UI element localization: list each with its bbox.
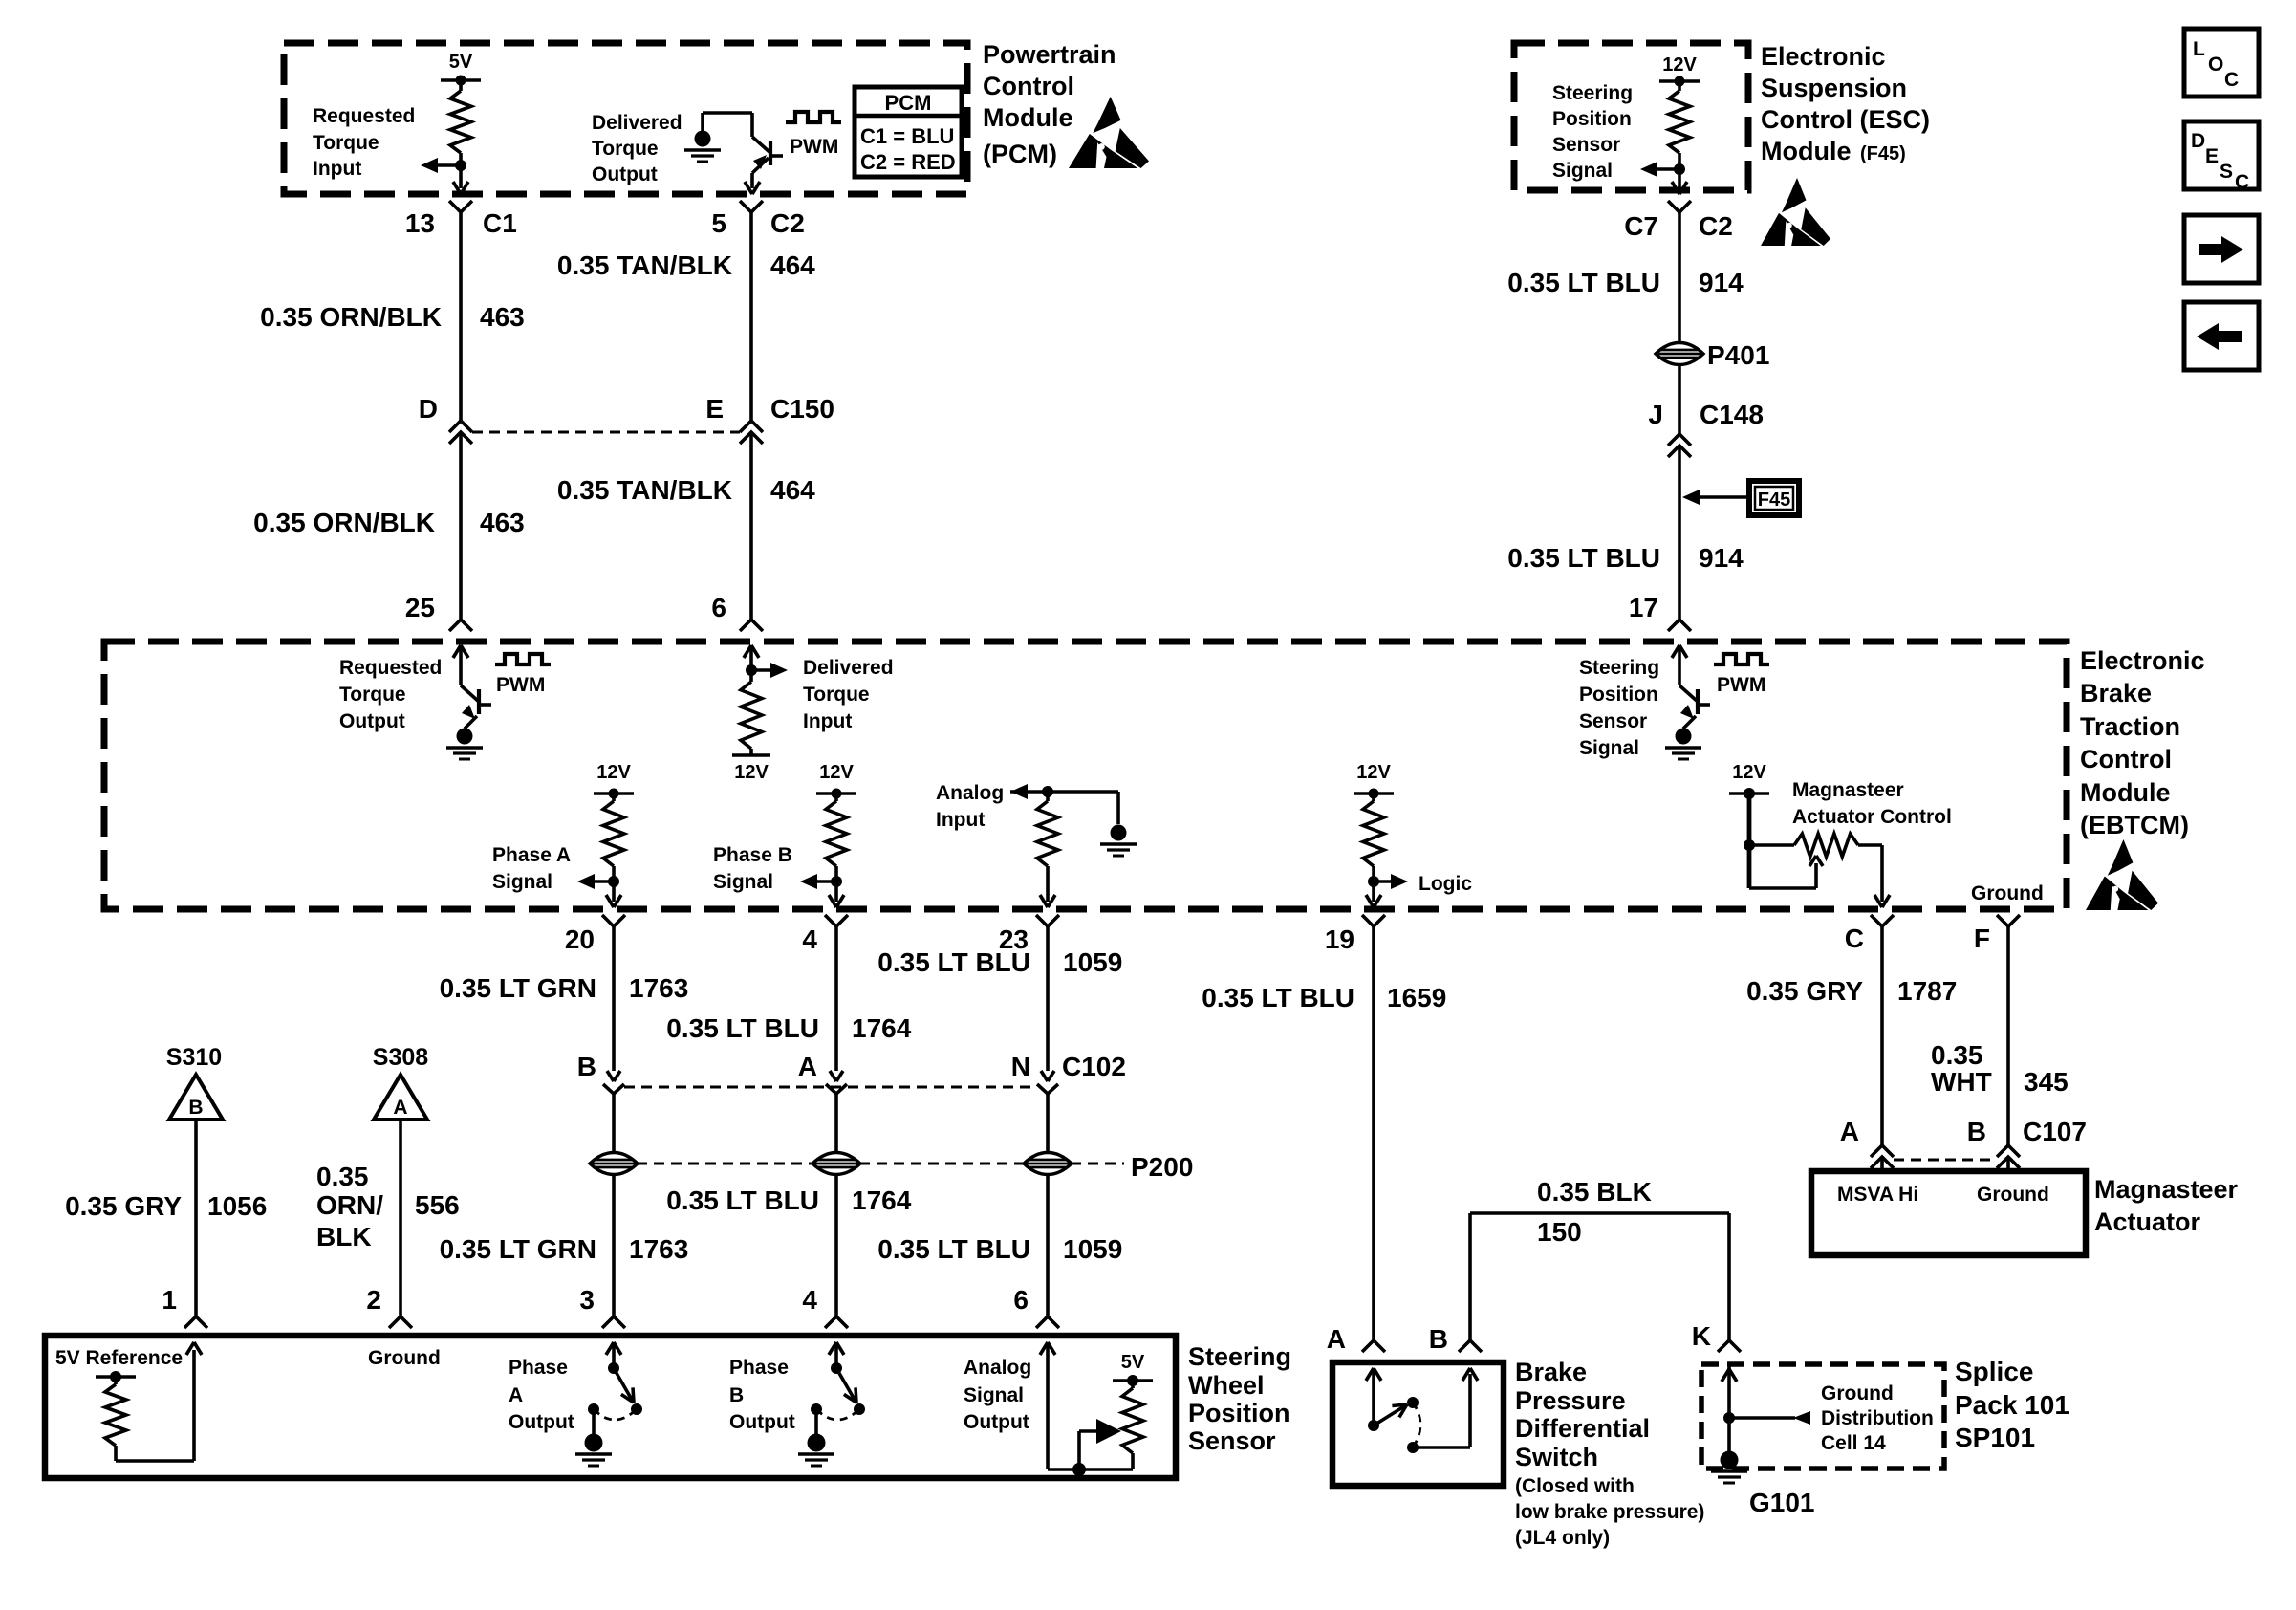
svg-text:C102: C102 — [1062, 1052, 1126, 1081]
svg-text:4: 4 — [802, 1285, 817, 1315]
svg-text:Control: Control — [983, 72, 1074, 100]
svg-text:0.35 LT BLU: 0.35 LT BLU — [666, 1013, 819, 1043]
svg-text:12V: 12V — [1662, 54, 1697, 76]
svg-text:C2: C2 — [1699, 211, 1733, 241]
svg-text:914: 914 — [1699, 268, 1744, 297]
svg-text:12V: 12V — [734, 762, 769, 783]
svg-text:Magnasteer: Magnasteer — [2094, 1175, 2239, 1204]
svg-text:Brake: Brake — [1515, 1358, 1587, 1386]
svg-text:PCM: PCM — [885, 91, 932, 115]
svg-text:Signal: Signal — [713, 871, 773, 893]
svg-text:PWM: PWM — [496, 674, 545, 696]
svg-text:Output: Output — [964, 1411, 1029, 1433]
svg-text:Torque: Torque — [339, 684, 406, 706]
svg-text:Sensor: Sensor — [1579, 710, 1647, 732]
svg-text:1: 1 — [162, 1285, 177, 1315]
svg-text:Steering: Steering — [1579, 657, 1659, 679]
svg-text:Switch: Switch — [1515, 1443, 1598, 1471]
svg-text:Torque: Torque — [313, 132, 379, 154]
svg-text:0.35 LT GRN: 0.35 LT GRN — [440, 1234, 596, 1264]
svg-text:Phase: Phase — [509, 1357, 568, 1379]
svg-text:Analog: Analog — [936, 782, 1004, 804]
svg-text:6: 6 — [1013, 1285, 1029, 1315]
svg-text:SP101: SP101 — [1955, 1423, 2035, 1452]
svg-text:Ground: Ground — [1977, 1184, 2049, 1206]
svg-text:Input: Input — [936, 809, 985, 831]
svg-text:1787: 1787 — [1897, 976, 1957, 1006]
svg-text:Logic: Logic — [1419, 873, 1472, 895]
svg-text:5V Reference: 5V Reference — [55, 1347, 183, 1369]
svg-text:Distribution: Distribution — [1821, 1407, 1934, 1429]
svg-text:C148: C148 — [1700, 400, 1764, 429]
svg-text:464: 464 — [770, 475, 815, 505]
svg-text:low brake pressure): low brake pressure) — [1515, 1501, 1704, 1523]
svg-text:0.35 ORN/BLK: 0.35 ORN/BLK — [253, 508, 435, 537]
svg-text:B: B — [1967, 1117, 1986, 1146]
svg-text:A: A — [798, 1052, 817, 1081]
svg-text:C: C — [1845, 924, 1864, 953]
svg-text:Position: Position — [1552, 108, 1632, 130]
svg-text:Signal: Signal — [1579, 737, 1639, 759]
svg-text:Differential: Differential — [1515, 1414, 1650, 1443]
svg-text:Electronic: Electronic — [2080, 646, 2205, 675]
svg-text:0.35 GRY: 0.35 GRY — [1746, 976, 1863, 1006]
svg-text:Splice: Splice — [1955, 1357, 2033, 1386]
svg-text:1763: 1763 — [629, 973, 688, 1003]
svg-text:150: 150 — [1537, 1217, 1582, 1247]
svg-text:0.35 TAN/BLK: 0.35 TAN/BLK — [557, 475, 732, 505]
svg-text:Phase B: Phase B — [713, 844, 792, 866]
svg-text:12V: 12V — [1356, 762, 1391, 783]
svg-text:Requested: Requested — [313, 105, 415, 127]
svg-text:(JL4 only): (JL4 only) — [1515, 1527, 1610, 1549]
svg-text:Traction: Traction — [2080, 712, 2180, 741]
svg-text:P200: P200 — [1131, 1152, 1193, 1182]
svg-text:A: A — [509, 1384, 523, 1406]
svg-text:0.35 LT BLU: 0.35 LT BLU — [666, 1186, 819, 1215]
svg-text:N: N — [1011, 1052, 1030, 1081]
svg-text:Output: Output — [339, 710, 405, 732]
svg-text:Signal: Signal — [1552, 160, 1613, 182]
svg-text:Magnasteer: Magnasteer — [1792, 779, 1904, 801]
svg-text:MSVA Hi: MSVA Hi — [1837, 1184, 1918, 1206]
svg-text:(F45): (F45) — [1860, 143, 1906, 164]
svg-text:463: 463 — [480, 508, 525, 537]
svg-text:0.35 LT BLU: 0.35 LT BLU — [1507, 543, 1660, 573]
svg-text:12V: 12V — [596, 762, 631, 783]
svg-text:1764: 1764 — [852, 1013, 912, 1043]
svg-text:0.35: 0.35 — [1931, 1040, 1983, 1070]
svg-text:F: F — [1974, 924, 1990, 953]
svg-text:D: D — [419, 394, 438, 424]
svg-text:A: A — [1840, 1117, 1859, 1146]
svg-text:0.35 ORN/BLK: 0.35 ORN/BLK — [260, 302, 442, 332]
svg-text:Delivered: Delivered — [803, 657, 894, 679]
svg-text:914: 914 — [1699, 543, 1744, 573]
svg-text:Electronic: Electronic — [1761, 42, 1886, 71]
svg-text:A: A — [1327, 1324, 1346, 1354]
svg-text:Signal: Signal — [964, 1384, 1024, 1406]
svg-text:0.35 LT BLU: 0.35 LT BLU — [1202, 983, 1354, 1012]
svg-text:Phase A: Phase A — [492, 844, 571, 866]
svg-text:1763: 1763 — [629, 1234, 688, 1264]
svg-text:O: O — [2208, 54, 2223, 76]
svg-text:Output: Output — [729, 1411, 795, 1433]
svg-text:Position: Position — [1188, 1399, 1290, 1427]
svg-text:25: 25 — [405, 593, 435, 622]
svg-text:464: 464 — [770, 250, 815, 280]
svg-text:B: B — [577, 1052, 596, 1081]
svg-text:E: E — [2205, 145, 2219, 167]
svg-text:G101: G101 — [1749, 1488, 1815, 1517]
svg-text:E: E — [705, 394, 724, 424]
svg-text:Torque: Torque — [592, 138, 659, 160]
svg-text:Position: Position — [1579, 684, 1658, 706]
svg-text:Wheel: Wheel — [1188, 1371, 1265, 1400]
svg-text:Suspension: Suspension — [1761, 74, 1907, 102]
svg-text:1659: 1659 — [1387, 983, 1446, 1012]
svg-text:13: 13 — [405, 208, 435, 238]
svg-text:(PCM): (PCM) — [983, 140, 1057, 168]
svg-text:6: 6 — [711, 593, 726, 622]
svg-text:12V: 12V — [1732, 762, 1766, 783]
svg-text:C7: C7 — [1624, 211, 1658, 241]
svg-text:2: 2 — [366, 1285, 381, 1315]
svg-text:Sensor: Sensor — [1552, 134, 1620, 156]
svg-text:Ground: Ground — [368, 1347, 441, 1369]
svg-text:B: B — [188, 1097, 203, 1119]
svg-text:C150: C150 — [770, 394, 834, 424]
svg-text:C1: C1 — [483, 208, 517, 238]
svg-text:(Closed with: (Closed with — [1515, 1475, 1635, 1497]
svg-text:P401: P401 — [1707, 340, 1769, 370]
svg-text:Torque: Torque — [803, 684, 870, 706]
svg-text:B: B — [1429, 1324, 1448, 1354]
svg-text:S310: S310 — [166, 1044, 222, 1071]
svg-text:C2: C2 — [770, 208, 805, 238]
svg-text:A: A — [393, 1097, 407, 1119]
svg-text:0.35 LT BLU: 0.35 LT BLU — [877, 1234, 1030, 1264]
svg-text:Ground: Ground — [1971, 882, 2044, 904]
svg-text:Analog: Analog — [964, 1357, 1031, 1379]
svg-text:Brake: Brake — [2080, 679, 2152, 707]
svg-text:Cell 14: Cell 14 — [1821, 1432, 1886, 1454]
svg-text:345: 345 — [2024, 1067, 2069, 1097]
svg-text:Actuator Control: Actuator Control — [1792, 806, 1952, 828]
svg-text:Actuator: Actuator — [2094, 1207, 2200, 1236]
svg-text:3: 3 — [579, 1285, 595, 1315]
svg-text:5: 5 — [711, 208, 726, 238]
svg-text:0.35 TAN/BLK: 0.35 TAN/BLK — [557, 250, 732, 280]
svg-text:Output: Output — [592, 163, 658, 185]
svg-text:Pack 101: Pack 101 — [1955, 1390, 2069, 1420]
svg-text:556: 556 — [415, 1190, 460, 1220]
svg-text:C: C — [2235, 171, 2249, 193]
svg-text:20: 20 — [565, 925, 595, 954]
svg-text:Signal: Signal — [492, 871, 552, 893]
svg-text:Pressure: Pressure — [1515, 1386, 1626, 1415]
svg-text:Input: Input — [313, 158, 361, 180]
svg-text:1059: 1059 — [1063, 1234, 1122, 1264]
svg-text:5V: 5V — [1121, 1352, 1145, 1373]
svg-text:J: J — [1648, 400, 1663, 429]
svg-text:Sensor: Sensor — [1188, 1426, 1276, 1455]
svg-text:4: 4 — [802, 925, 817, 954]
svg-text:C: C — [2224, 69, 2239, 91]
svg-text:1059: 1059 — [1063, 947, 1122, 977]
svg-text:0.35 LT BLU: 0.35 LT BLU — [877, 947, 1030, 977]
svg-text:F45: F45 — [1758, 490, 1790, 511]
svg-text:BLK: BLK — [316, 1222, 372, 1251]
svg-text:Module: Module — [983, 103, 1073, 132]
svg-text:Output: Output — [509, 1411, 574, 1433]
svg-text:1764: 1764 — [852, 1186, 912, 1215]
svg-text:C2 = RED: C2 = RED — [860, 150, 956, 174]
svg-text:17: 17 — [1629, 593, 1658, 622]
svg-text:Requested: Requested — [339, 657, 442, 679]
svg-text:Control (ESC): Control (ESC) — [1761, 105, 1930, 134]
svg-text:19: 19 — [1325, 925, 1354, 954]
svg-text:Steering: Steering — [1188, 1342, 1291, 1371]
svg-text:Module: Module — [2080, 778, 2171, 807]
svg-text:0.35: 0.35 — [316, 1162, 369, 1191]
svg-text:PWM: PWM — [790, 136, 838, 158]
svg-text:0.35 BLK: 0.35 BLK — [1537, 1177, 1652, 1207]
svg-text:S308: S308 — [373, 1044, 428, 1071]
svg-text:0.35 LT GRN: 0.35 LT GRN — [440, 973, 596, 1003]
svg-text:Steering: Steering — [1552, 82, 1633, 104]
svg-text:12V: 12V — [819, 762, 854, 783]
svg-text:0.35 LT BLU: 0.35 LT BLU — [1507, 268, 1660, 297]
svg-text:Module: Module — [1761, 137, 1852, 165]
svg-text:K: K — [1692, 1321, 1711, 1351]
svg-text:PWM: PWM — [1717, 674, 1765, 696]
svg-text:ORN/: ORN/ — [316, 1190, 383, 1220]
svg-text:Ground: Ground — [1821, 1382, 1894, 1404]
svg-text:D: D — [2191, 130, 2205, 152]
svg-text:Phase: Phase — [729, 1357, 789, 1379]
svg-text:Control: Control — [2080, 745, 2172, 773]
svg-text:Input: Input — [803, 710, 852, 732]
svg-text:1056: 1056 — [207, 1191, 267, 1221]
svg-text:(EBTCM): (EBTCM) — [2080, 811, 2189, 839]
svg-text:B: B — [729, 1384, 744, 1406]
svg-text:S: S — [2220, 161, 2233, 183]
svg-text:L: L — [2193, 38, 2205, 60]
svg-text:C107: C107 — [2023, 1117, 2087, 1146]
svg-text:463: 463 — [480, 302, 525, 332]
svg-text:Delivered: Delivered — [592, 112, 682, 134]
svg-text:WHT: WHT — [1931, 1067, 1992, 1097]
svg-text:5V: 5V — [449, 52, 473, 73]
svg-text:Powertrain: Powertrain — [983, 40, 1116, 69]
svg-text:0.35 GRY: 0.35 GRY — [65, 1191, 182, 1221]
svg-text:C1 = BLU: C1 = BLU — [860, 124, 954, 148]
